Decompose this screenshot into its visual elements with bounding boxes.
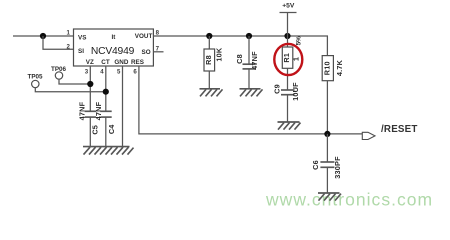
svg-text:C6: C6 xyxy=(311,160,320,170)
resistor R1 xyxy=(282,36,293,90)
svg-text:47NF: 47NF xyxy=(250,51,259,70)
svg-text:C8: C8 xyxy=(235,54,244,64)
node junction C8 xyxy=(246,33,252,39)
svg-text:SI: SI xyxy=(78,48,84,55)
capacitor C6 xyxy=(320,134,334,193)
node junction VS/SI xyxy=(40,33,46,39)
resistor R10 xyxy=(322,56,333,134)
capacitor C9 xyxy=(281,90,295,122)
svg-text:VOUT: VOUT xyxy=(135,33,153,40)
svg-text:VZ: VZ xyxy=(86,59,94,66)
capacitor C4 xyxy=(100,111,111,146)
svg-text:10UF: 10UF xyxy=(291,82,300,101)
wire top rail right VOUT to R10 xyxy=(153,36,327,56)
connector /RESET arrow xyxy=(362,132,375,139)
wire SI branch xyxy=(43,36,74,49)
node junction R10/C6/RESET xyxy=(324,131,330,137)
capacitor C8 xyxy=(243,36,256,89)
wire top rail left xyxy=(13,35,74,37)
node junction R8 xyxy=(206,33,212,39)
svg-text:TP05: TP05 xyxy=(27,73,43,80)
wire RES pin 6 to /RESET xyxy=(139,66,362,134)
ground C9 xyxy=(278,122,301,130)
svg-text:47NF: 47NF xyxy=(78,101,87,120)
svg-text:C4: C4 xyxy=(107,124,116,134)
ground main (C5/C4/GND) xyxy=(83,147,134,155)
test point TP05 pad xyxy=(32,80,39,87)
svg-text:5%: 5% xyxy=(295,36,302,46)
svg-text:www.cntronics.com: www.cntronics.com xyxy=(265,190,433,210)
svg-text:GND: GND xyxy=(114,59,128,66)
wire GND pin 5 down xyxy=(122,66,124,147)
svg-text:10K: 10K xyxy=(215,47,224,62)
power +5V symbol xyxy=(280,13,297,37)
svg-text:SO: SO xyxy=(142,49,151,56)
svg-text:47NF: 47NF xyxy=(94,101,103,120)
wire TP05 to CT node xyxy=(35,88,106,92)
svg-text:C9: C9 xyxy=(273,84,282,94)
svg-text:R10: R10 xyxy=(323,61,332,75)
IC U1 NCV4949 body xyxy=(74,29,154,66)
resistor R8 xyxy=(204,36,215,89)
svg-text:+5V: +5V xyxy=(282,3,295,10)
svg-text:4: 4 xyxy=(100,68,104,75)
svg-text:NCV4949: NCV4949 xyxy=(91,46,135,57)
wire VZ pin 3 down xyxy=(89,66,91,111)
svg-text:R8: R8 xyxy=(204,55,213,65)
capacitor C5 xyxy=(85,111,96,146)
ground C8 xyxy=(240,89,263,97)
svg-text:RES: RES xyxy=(131,59,144,66)
test point TP06 pad xyxy=(55,72,62,79)
svg-text:4.7K: 4.7K xyxy=(335,59,344,76)
svg-text:VS: VS xyxy=(78,35,86,42)
node junction CT/TP05 xyxy=(103,89,109,95)
node junction VZ/TP06 xyxy=(87,81,93,87)
highlight ellipse around R1 xyxy=(274,44,302,75)
svg-text:1: 1 xyxy=(292,57,301,61)
wire TP06 to VZ node xyxy=(59,79,90,84)
node junction +5V / R1 xyxy=(284,33,290,39)
svg-text:CT: CT xyxy=(101,59,110,66)
svg-text:R1: R1 xyxy=(282,53,291,63)
svg-text:330PF: 330PF xyxy=(333,156,342,179)
ground C6 xyxy=(318,193,341,201)
wire CT pin 4 down xyxy=(105,66,107,111)
svg-text:C5: C5 xyxy=(90,125,99,135)
svg-text:/RESET: /RESET xyxy=(381,124,418,135)
ground R8 xyxy=(200,89,223,97)
U1 pin 7 no-connect stub xyxy=(153,51,163,53)
